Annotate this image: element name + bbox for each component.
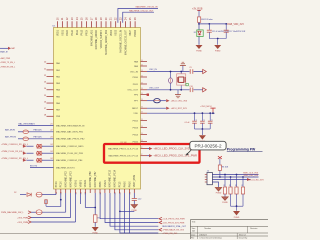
- svg-text:RGB_VDD_3V3: RGB_VDD_3V3: [227, 24, 244, 26]
- svg-text:MACHINE_BAT_MON_PB1: MACHINE_BAT_MON_PB1: [56, 131, 84, 134]
- svg-text:2: 2: [141, 154, 142, 156]
- svg-text:21: 21: [50, 123, 52, 125]
- svg-text:MACHINE_PB7: MACHINE_PB7: [94, 171, 97, 188]
- svg-text:MACHINE_PROG_DIO_PC14: MACHINE_PROG_DIO_PC14: [108, 155, 138, 158]
- svg-text:C:\Users\machine\Desktop: C:\Users\machine\Desktop: [199, 236, 222, 239]
- svg-text:PB8X: PB8X: [100, 181, 102, 187]
- svg-text:MACHINE_OSC32_OUT: MACHINE_OSC32_OUT: [124, 29, 127, 55]
- svg-text:Sheet of: Sheet of: [239, 233, 247, 236]
- svg-text:SWD_DIO_3V3: SWD_DIO_3V3: [243, 175, 258, 177]
- svg-text:MACHINE_OSC32_IN: MACHINE_OSC32_IN: [136, 6, 158, 9]
- svg-text:VREF1: VREF1: [80, 179, 82, 187]
- svg-text:D2: D2: [14, 192, 16, 194]
- svg-text:Number: Number: [204, 227, 211, 230]
- svg-text:OSC_OUT: OSC_OUT: [149, 88, 160, 90]
- svg-text:MACHINE_ADDR0: MACHINE_ADDR0: [95, 29, 98, 49]
- svg-text:VBAT: VBAT: [129, 29, 132, 35]
- svg-text:VDD2: VDD2: [111, 29, 113, 36]
- svg-text:MACHINE_PC14: MACHINE_PC14: [114, 169, 117, 187]
- svg-text:4/8/2023: 4/8/2023: [199, 234, 206, 236]
- svg-text:PC15: PC15: [120, 181, 122, 187]
- svg-text:PWM_MACHINE_SW_L: PWM_MACHINE_SW_L: [1, 211, 24, 214]
- svg-text:VDDA1: VDDA1: [84, 179, 87, 187]
- svg-text:Drawn By:: Drawn By:: [239, 236, 248, 239]
- svg-text:MACHINE_CONFIG1_PA15: MACHINE_CONFIG1_PA15: [56, 145, 84, 148]
- svg-text:PA10: PA10: [71, 29, 74, 35]
- svg-text:MACHINE_OSC32_IN: MACHINE_OSC32_IN: [119, 30, 122, 53]
- svg-text:MACHINE_PC2: MACHINE_PC2: [65, 170, 68, 187]
- svg-text:Programming PW: Programming PW: [227, 148, 256, 152]
- svg-text:23: 23: [50, 137, 52, 139]
- svg-text:VSS21: VSS21: [105, 179, 107, 187]
- svg-text:PGND: PGND: [234, 217, 240, 219]
- svg-text:C22: C22: [138, 199, 141, 201]
- svg-text:24: 24: [50, 151, 52, 153]
- svg-text:D1: D1: [194, 32, 196, 34]
- svg-text:BOOT0: BOOT0: [30, 165, 38, 167]
- svg-text:+PWM_SW_3V3: +PWM_SW_3V3: [162, 233, 178, 235]
- svg-text:MACHINE_BAT_PROG_PB2: MACHINE_BAT_PROG_PB2: [56, 138, 85, 141]
- svg-text:File:: File:: [191, 237, 195, 239]
- svg-text:FB1 120 ohm: FB1 120 ohm: [201, 19, 213, 21]
- svg-text:PB10: PB10: [133, 77, 139, 79]
- svg-text:+MCU_LED_PROG_DIO_3V3_PWR: +MCU_LED_PROG_DIO_3V3_PWR: [153, 156, 197, 158]
- svg-text:+DIO_PROG_3V3_PWR: +DIO_PROG_3V3_PWR: [162, 222, 185, 224]
- svg-text:VBAT_MON: VBAT_MON: [133, 175, 136, 188]
- svg-text:24: 24: [50, 158, 52, 160]
- svg-text:PB11: PB11: [133, 84, 139, 86]
- svg-text:MACHINE_AD1: MACHINE_AD1: [90, 29, 93, 46]
- svg-text:PB13: PB13: [133, 127, 139, 129]
- svg-text:BAT_MON: BAT_MON: [5, 129, 15, 132]
- svg-text:+PWM_RX_EN_L: +PWM_RX_EN_L: [0, 66, 15, 68]
- svg-text:VSSA1: VSSA1: [74, 179, 77, 187]
- svg-text:R7: R7: [98, 218, 100, 220]
- svg-text:OSC_IN: OSC_IN: [149, 69, 157, 71]
- svg-text:VSS1: VSS1: [62, 29, 64, 36]
- svg-text:MACHINE_PB6: MACHINE_PB6: [89, 171, 92, 188]
- svg-text:C9: C9: [189, 67, 191, 69]
- svg-text:+PWM_TX_EN_L: +PWM_TX_EN_L: [0, 62, 15, 64]
- svg-text:MACHINE_BOOT0: MACHINE_BOOT0: [56, 166, 76, 169]
- svg-text:PGND: PGND: [216, 193, 222, 195]
- svg-text:2: 2: [141, 147, 142, 149]
- svg-text:MACHINE_PC13: MACHINE_PC13: [109, 169, 112, 187]
- svg-text:+3V3_PWM: +3V3_PWM: [17, 217, 28, 219]
- svg-text:MACHINE_OSC32_OUT: MACHINE_OSC32_OUT: [129, 9, 154, 12]
- svg-text:C17 10uF/25V X5R: C17 10uF/25V X5R: [229, 31, 246, 33]
- svg-text:PGND: PGND: [222, 202, 228, 204]
- svg-text:+CLK_PROG_3V3_PWR: +CLK_PROG_3V3_PWR: [162, 219, 185, 221]
- svg-text:BAT_PROG: BAT_PROG: [5, 136, 17, 139]
- svg-text:PWR2: PWR2: [135, 29, 137, 36]
- svg-text:RESONATOR_XTAL_OUT: RESONATOR_XTAL_OUT: [162, 225, 187, 228]
- svg-text:FB7/10K: FB7/10K: [34, 137, 43, 139]
- svg-text:OSC_OUT: OSC_OUT: [127, 90, 138, 92]
- svg-text:+PWM_MACH_RX_3V3: +PWM_MACH_RX_3V3: [162, 229, 185, 232]
- svg-text:PH1X: PH1X: [129, 181, 131, 187]
- svg-text:+MCU_RST_3V3: +MCU_RST_3V3: [171, 108, 188, 110]
- svg-text:+MCU_LED_3V3: +MCU_LED_3V3: [248, 179, 265, 181]
- svg-text:PC1X: PC1X: [61, 181, 63, 187]
- svg-text:+BAT_PWR: +BAT_PWR: [0, 57, 11, 60]
- svg-text:PA11: PA11: [76, 29, 79, 35]
- svg-text:MACHINE_PROG_CLK_PC13: MACHINE_PROG_CLK_PC13: [108, 148, 139, 151]
- svg-text:PGND: PGND: [215, 51, 221, 53]
- svg-text:C10: C10: [189, 86, 192, 88]
- svg-text:VDDIO2_SUPPLY: VDDIO2_SUPPLY: [101, 30, 103, 49]
- svg-text:PRJ-00256-2: PRJ-00256-2: [194, 143, 222, 148]
- svg-text:PC0X: PC0X: [56, 181, 58, 187]
- svg-text:PGND: PGND: [196, 51, 202, 53]
- svg-text:NRST: NRST: [132, 108, 139, 110]
- svg-text:MACHINE_PLUG_RX_PB3: MACHINE_PLUG_RX_PB3: [56, 152, 84, 155]
- svg-text:PH0X: PH0X: [124, 181, 126, 187]
- svg-text:FB6/10K: FB6/10K: [34, 130, 43, 132]
- svg-text:0.1uF: 0.1uF: [185, 122, 191, 124]
- svg-text:VDD1: VDD1: [57, 29, 59, 36]
- svg-text:MACHINE_PC3: MACHINE_PC3: [70, 170, 73, 187]
- svg-text:PA12: PA12: [81, 29, 84, 35]
- svg-text:+PWM_PLUG_RX_EN_L: +PWM_PLUG_RX_EN_L: [1, 151, 25, 153]
- svg-text:PB12: PB12: [133, 120, 139, 122]
- svg-text:VBAT_M: VBAT_M: [0, 50, 8, 53]
- svg-text:MACHINE_CONFIG2_PB4: MACHINE_CONFIG2_PB4: [56, 159, 83, 162]
- svg-text:Revision: Revision: [250, 228, 257, 230]
- svg-text:22: 22: [50, 130, 52, 132]
- svg-text:24: 24: [50, 144, 52, 146]
- svg-text:PA9X: PA9X: [66, 30, 69, 36]
- svg-text:VSS2: VSS2: [116, 29, 118, 36]
- svg-text:Date:: Date:: [191, 233, 196, 236]
- svg-text:+3V3_MCU: +3V3_MCU: [200, 106, 212, 108]
- svg-text:MACHINE_RESONATOR_IN: MACHINE_RESONATOR_IN: [56, 124, 85, 127]
- svg-text:R6 10K: R6 10K: [222, 166, 229, 168]
- svg-text:BAL_RESONATO: BAL_RESONATO: [19, 122, 36, 125]
- svg-text:+MCU_OSC_3V3: +MCU_OSC_3V3: [171, 101, 188, 103]
- svg-text:PF0X: PF0X: [87, 30, 89, 36]
- svg-text:PB14: PB14: [133, 134, 139, 136]
- svg-text:VDD: VDD: [133, 113, 138, 115]
- svg-text:OSC_IN: OSC_IN: [130, 71, 139, 73]
- svg-text:MACHINE_ADDR0_PA9: MACHINE_ADDR0_PA9: [105, 29, 108, 54]
- svg-text:+3V3_PWM: +3V3_PWM: [17, 222, 28, 224]
- svg-text:PGND: PGND: [92, 232, 98, 234]
